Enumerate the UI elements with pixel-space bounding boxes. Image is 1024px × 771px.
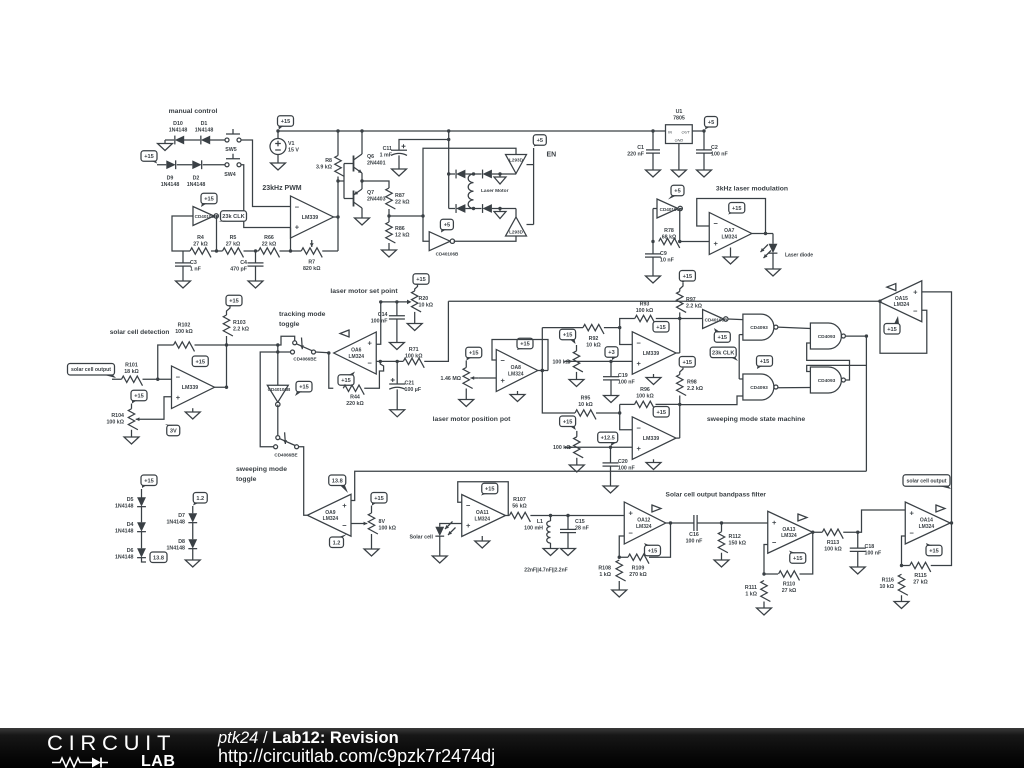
resistor R111	[745, 581, 770, 602]
svg-text:toggle: toggle	[236, 476, 257, 483]
svg-text:C4: C4	[240, 260, 247, 266]
wire row1	[448, 148, 450, 208]
wire set wire	[381, 301, 410, 303]
svg-text:13.8: 13.8	[332, 478, 343, 484]
svg-text:+: +	[466, 521, 471, 530]
ground	[697, 153, 712, 177]
ground	[569, 380, 584, 387]
inverter CD40106B sm	[703, 310, 728, 329]
svg-text:+15: +15	[299, 385, 309, 391]
svg-text:sweeping mode state machine: sweeping mode state machine	[707, 416, 805, 423]
svg-text:1N4148: 1N4148	[166, 545, 185, 551]
title 23kHz PWM	[262, 185, 301, 192]
svg-text:C11: C11	[383, 146, 392, 152]
wire	[481, 536, 483, 541]
source V1	[270, 139, 299, 155]
svg-text:100 nF: 100 nF	[686, 538, 704, 544]
node +15	[226, 295, 242, 306]
junction	[678, 403, 681, 406]
op-amp OA8	[496, 350, 538, 392]
junction	[762, 572, 765, 575]
junction	[289, 249, 292, 252]
wire	[857, 551, 859, 567]
svg-text:+15: +15	[134, 394, 144, 400]
wire	[241, 165, 291, 228]
wire	[576, 372, 578, 380]
svg-text:C21: C21	[405, 381, 415, 387]
svg-text:100 kΩ: 100 kΩ	[552, 359, 570, 365]
svg-text:D2: D2	[193, 176, 200, 182]
svg-text:R86: R86	[395, 226, 405, 232]
wire	[449, 140, 516, 155]
node 3V	[165, 424, 180, 436]
wire	[517, 391, 519, 395]
node +15	[653, 406, 669, 417]
wire	[542, 327, 583, 329]
ground	[723, 257, 738, 264]
diode D7	[166, 513, 197, 525]
wire	[364, 361, 383, 388]
resistor R86	[386, 222, 411, 243]
wire gnd pin	[678, 144, 680, 171]
wire	[656, 318, 703, 320]
wire out	[692, 130, 704, 132]
svg-text:10 kΩ: 10 kΩ	[578, 402, 593, 408]
op-amp OA11	[462, 495, 506, 537]
svg-text:D5: D5	[127, 497, 134, 503]
svg-text:100 nF: 100 nF	[865, 551, 883, 557]
svg-text:+: +	[368, 339, 373, 348]
wire	[227, 344, 278, 346]
svg-text:27 kΩ: 27 kΩ	[226, 241, 241, 247]
op-amp LM339 pwm	[291, 196, 334, 238]
wire	[610, 466, 612, 486]
node +15	[413, 274, 429, 285]
svg-text:R116: R116	[882, 578, 894, 584]
diode bridge D-UL	[456, 170, 465, 179]
svg-text:LM324: LM324	[721, 234, 737, 240]
node +15	[201, 193, 217, 207]
diode D6	[115, 548, 146, 560]
nand CD4093 D	[810, 367, 845, 393]
capacitor C19	[603, 361, 636, 385]
svg-text:R5: R5	[230, 235, 237, 241]
wire out c2	[676, 437, 680, 439]
ground	[185, 412, 200, 419]
wire	[143, 378, 172, 380]
wire	[361, 213, 363, 219]
svg-text:+: +	[501, 376, 506, 385]
resistor R107	[509, 497, 530, 522]
wire	[656, 403, 680, 405]
ground	[392, 155, 407, 176]
svg-text:+15: +15	[887, 327, 897, 333]
svg-text:+15: +15	[656, 325, 666, 331]
junction	[609, 360, 612, 363]
svg-text:100 kΩ: 100 kΩ	[636, 393, 654, 399]
svg-text:−: −	[637, 338, 642, 347]
svg-text:+15: +15	[656, 410, 666, 416]
wire cross1b	[807, 336, 867, 371]
wire	[290, 228, 292, 252]
svg-text:C2: C2	[711, 145, 718, 151]
wire	[278, 336, 295, 345]
svg-text:100 mH: 100 mH	[524, 525, 543, 531]
svg-text:R113: R113	[827, 540, 839, 546]
wire	[515, 173, 517, 176]
wire	[680, 396, 743, 405]
title laser motor set point	[330, 288, 398, 295]
svg-text:22 kΩ: 22 kΩ	[262, 241, 277, 247]
wire - in	[376, 360, 403, 362]
junction	[678, 240, 681, 243]
wire	[465, 208, 481, 210]
wire	[576, 345, 578, 351]
node +5	[533, 135, 546, 147]
wire	[610, 380, 612, 396]
svg-text:56 kΩ: 56 kΩ	[512, 503, 527, 509]
svg-text:LM324: LM324	[348, 354, 364, 360]
wire output	[334, 217, 339, 251]
svg-text:+15: +15	[732, 206, 742, 212]
svg-text:LM324: LM324	[894, 302, 910, 308]
ground	[612, 590, 627, 597]
svg-text:LM324: LM324	[919, 524, 935, 530]
svg-text:1N4148: 1N4148	[195, 127, 214, 133]
svg-text:R103: R103	[233, 320, 246, 326]
junction	[498, 207, 501, 210]
node +15	[728, 203, 745, 215]
svg-text:LM339: LM339	[643, 436, 660, 442]
svg-text:−: −	[176, 373, 181, 382]
svg-text:+15: +15	[341, 378, 351, 384]
svg-text:+15: +15	[144, 478, 154, 484]
svg-text:C18: C18	[865, 544, 875, 550]
svg-text:LM339: LM339	[302, 215, 319, 221]
node +15	[338, 372, 355, 386]
svg-text:−: −	[910, 529, 915, 538]
resistor R97	[677, 291, 703, 312]
potentiometer 1.46M	[441, 368, 479, 389]
wire	[141, 507, 143, 523]
junction	[618, 556, 621, 559]
svg-text:10 kΩ: 10 kΩ	[419, 303, 434, 309]
svg-text:2N4403: 2N4403	[367, 197, 386, 203]
svg-text:−: −	[295, 203, 300, 212]
flag	[340, 330, 349, 337]
svg-text:CD40106B: CD40106B	[195, 214, 218, 219]
node +15	[131, 390, 147, 403]
wire	[697, 522, 768, 524]
wire	[680, 368, 683, 375]
CircuitLab logo	[47, 731, 187, 757]
op-amp OA6	[334, 332, 377, 374]
wire clk	[739, 335, 743, 379]
potentiometer 100k sw1	[552, 351, 582, 372]
svg-text:150 kΩ: 150 kΩ	[729, 541, 747, 547]
transistor Q7	[354, 185, 386, 213]
svg-text:R101: R101	[125, 363, 138, 369]
svg-text:100 kΩ: 100 kΩ	[175, 329, 193, 335]
ground	[271, 163, 286, 170]
node +5	[705, 117, 718, 130]
svg-text:D7: D7	[178, 513, 185, 519]
svg-text:100 kΩ: 100 kΩ	[553, 445, 571, 451]
svg-text:OA6: OA6	[351, 348, 362, 354]
wire	[653, 130, 666, 132]
junction	[254, 249, 257, 252]
svg-text:100 kΩ: 100 kΩ	[636, 308, 654, 314]
svg-text:1N4148: 1N4148	[187, 182, 206, 188]
capacitor C14	[371, 302, 405, 324]
svg-text:CD4093: CD4093	[750, 325, 768, 331]
svg-text:1 nF: 1 nF	[190, 267, 202, 273]
wire	[492, 208, 516, 210]
wire	[843, 531, 858, 533]
svg-text:R112: R112	[729, 534, 741, 540]
title laser motor position pot	[433, 416, 512, 423]
svg-text:2.2 kΩ: 2.2 kΩ	[686, 304, 703, 310]
resistor R103	[223, 315, 249, 336]
svg-text:220 kΩ: 220 kΩ	[346, 401, 364, 407]
junction	[336, 129, 339, 132]
svg-text:220 nF: 220 nF	[627, 151, 645, 157]
wire	[203, 164, 225, 166]
wire	[141, 532, 143, 549]
wire + in	[376, 302, 381, 344]
wire feedback	[697, 199, 766, 234]
svg-text:R20: R20	[419, 296, 429, 302]
wire	[158, 345, 174, 379]
node +15	[371, 493, 387, 506]
junction	[900, 564, 903, 567]
svg-text:Q7: Q7	[367, 190, 374, 196]
ground	[646, 153, 661, 177]
wire	[337, 177, 339, 218]
svg-text:+15: +15	[929, 549, 939, 555]
svg-text:OA7: OA7	[724, 228, 735, 234]
svg-text:D10: D10	[173, 121, 183, 127]
svg-text:−: −	[913, 306, 918, 315]
svg-text:100 µF: 100 µF	[405, 387, 422, 393]
svg-text:solar cell detection: solar cell detection	[110, 329, 170, 336]
wire	[192, 408, 194, 412]
op-amp OA7	[709, 213, 752, 255]
junction	[447, 172, 450, 175]
diode D8	[166, 539, 197, 551]
svg-text:L1: L1	[537, 519, 543, 525]
node +3	[605, 347, 618, 360]
wire	[277, 345, 279, 352]
ground	[355, 218, 370, 225]
svg-text:27 kΩ: 27 kΩ	[782, 588, 797, 594]
svg-text:3.9 kΩ: 3.9 kΩ	[316, 164, 333, 170]
wire - fb	[619, 536, 628, 557]
svg-text:laser motor position pot: laser motor position pot	[433, 416, 512, 423]
junction	[856, 531, 859, 534]
resistor R92	[583, 324, 604, 348]
svg-text:−: −	[629, 529, 634, 538]
wire	[653, 208, 657, 210]
wire	[515, 209, 517, 218]
svg-text:27 kΩ: 27 kΩ	[193, 241, 208, 247]
wire	[172, 216, 193, 251]
capacitor C4	[230, 251, 263, 272]
svg-text:C14: C14	[378, 312, 388, 318]
wire	[550, 543, 552, 549]
text Solar cell	[409, 535, 433, 541]
wire	[192, 523, 194, 540]
title tracking mode toggle	[279, 311, 326, 328]
wire	[424, 301, 448, 361]
junction	[865, 334, 868, 337]
svg-text:C9: C9	[660, 251, 667, 257]
svg-text:tracking mode: tracking mode	[279, 311, 326, 318]
svg-text:LM339: LM339	[643, 351, 660, 357]
wire	[449, 173, 455, 175]
svg-text:CD40106B: CD40106B	[705, 318, 728, 323]
svg-text:18 kΩ: 18 kΩ	[124, 369, 139, 375]
junction	[541, 369, 544, 372]
resistor R116	[879, 574, 907, 595]
svg-text:R87: R87	[395, 193, 405, 199]
wire	[649, 523, 671, 557]
wire	[183, 250, 223, 252]
svg-text:+15: +15	[416, 277, 426, 283]
svg-text:+15: +15	[563, 419, 573, 425]
wire	[244, 250, 259, 252]
wire EN rail	[527, 148, 534, 225]
capacitor C9	[645, 251, 675, 264]
resistor R108	[598, 560, 625, 581]
svg-text:+12.5: +12.5	[601, 436, 615, 442]
wire + input	[922, 292, 952, 523]
junction	[327, 351, 330, 354]
nand CD4093 A	[743, 314, 778, 340]
node 13.8	[147, 552, 167, 563]
potentiometer R7	[301, 240, 322, 272]
svg-text:23k CLK: 23k CLK	[712, 351, 734, 357]
switch SW4	[224, 154, 241, 178]
svg-text:+15: +15	[793, 556, 803, 562]
ground	[124, 437, 139, 444]
svg-text:LM339: LM339	[182, 385, 199, 391]
svg-text:+15: +15	[204, 197, 214, 203]
wire	[184, 139, 200, 141]
junction	[396, 360, 399, 363]
svg-text:+: +	[342, 501, 347, 510]
wire	[112, 378, 122, 380]
svg-text:SW4: SW4	[224, 172, 236, 178]
svg-text:820 kΩ: 820 kΩ	[303, 266, 321, 272]
node +15	[278, 116, 294, 130]
svg-text:L293D: L293D	[509, 230, 523, 235]
title 3kHz laser modulation	[716, 186, 788, 193]
wire cross1	[845, 335, 866, 337]
svg-text:+: +	[913, 287, 918, 296]
junction	[276, 350, 279, 353]
wire wiper r104	[144, 397, 172, 420]
svg-text:C3: C3	[190, 260, 197, 266]
node +15	[466, 347, 482, 360]
svg-text:470 pF: 470 pF	[230, 266, 248, 272]
svg-text:2.2 kΩ: 2.2 kΩ	[687, 386, 704, 392]
ground	[475, 541, 490, 548]
svg-text:100 nF: 100 nF	[711, 152, 729, 158]
node +12.5	[598, 432, 618, 446]
svg-text:LM324: LM324	[781, 533, 797, 539]
svg-text:+15: +15	[144, 154, 154, 160]
op-amp LM339 c1	[632, 332, 676, 375]
potentiometer R104	[106, 409, 143, 430]
junction	[276, 343, 279, 346]
wire A bus	[351, 471, 866, 500]
svg-text:D9: D9	[167, 176, 174, 182]
wire	[721, 553, 723, 560]
node +5	[668, 185, 684, 199]
svg-text:LM324: LM324	[475, 516, 491, 522]
wire cross2	[807, 343, 850, 380]
node +15	[926, 543, 942, 556]
wire	[620, 403, 635, 405]
wire	[280, 250, 302, 252]
svg-text:D1: D1	[201, 121, 208, 127]
svg-text:U1: U1	[676, 109, 683, 115]
wire	[596, 412, 620, 414]
svg-text:1N4148: 1N4148	[115, 503, 134, 509]
wire	[414, 312, 416, 324]
node +15	[714, 328, 730, 342]
junction	[618, 326, 621, 329]
svg-text:manual control: manual control	[169, 108, 218, 115]
svg-text:LM324: LM324	[508, 371, 524, 377]
node +15	[789, 551, 806, 564]
wire	[653, 374, 655, 378]
svg-text:CD4093: CD4093	[818, 378, 836, 384]
svg-text:1.46 MΩ: 1.46 MΩ	[441, 376, 462, 382]
junction	[421, 214, 424, 217]
node +15	[481, 483, 498, 495]
node 1.2	[330, 534, 348, 548]
svg-text:R7: R7	[308, 260, 315, 266]
wire	[217, 216, 219, 251]
svg-text:CD4066BE: CD4066BE	[274, 453, 297, 458]
inductor laser motor	[468, 174, 508, 209]
ground	[757, 608, 772, 615]
svg-text:Solar cell output bandpass fil: Solar cell output bandpass filter	[666, 492, 767, 499]
svg-text:CD4093: CD4093	[750, 385, 768, 391]
svg-text:Laser diode: Laser diode	[785, 253, 813, 259]
wire	[371, 534, 373, 549]
wire out	[950, 522, 951, 524]
junction	[379, 300, 382, 303]
junction	[447, 138, 450, 141]
resistor R115	[910, 562, 931, 585]
svg-text:R78: R78	[664, 228, 674, 234]
title manual control	[169, 108, 218, 115]
switch SW5	[225, 129, 241, 153]
diode bridge D-UR	[483, 170, 492, 179]
wire	[652, 209, 654, 254]
wire	[618, 581, 620, 590]
junction	[472, 172, 475, 175]
svg-text:1 mF: 1 mF	[380, 152, 393, 158]
wire out c1	[676, 352, 680, 354]
junction	[387, 214, 390, 217]
logo resistor	[52, 758, 92, 767]
resistor R110	[779, 571, 800, 594]
capacitor C3	[175, 251, 202, 273]
